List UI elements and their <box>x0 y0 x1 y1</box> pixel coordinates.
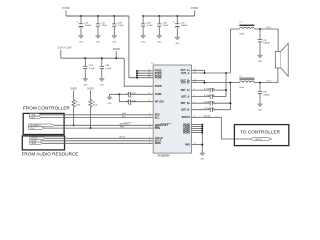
node 3.3V or 1.8V supply <box>58 47 72 59</box>
svg-text:ADR/FAULT: ADR/FAULT <box>120 123 131 126</box>
wire OUT_B+ stub <box>192 81 205 83</box>
ground for AVDD/VR_DIG caps <box>107 94 112 105</box>
svg-text:PVDD: PVDD <box>191 6 198 10</box>
capacitor C29 0.1uF <box>141 16 153 35</box>
junction rail1 at C28 <box>113 15 115 17</box>
svg-text:4: 4 <box>194 88 195 90</box>
flag SCLK <box>30 140 43 143</box>
svg-text:10.0k: 10.0k <box>76 104 81 106</box>
svg-text:PDN: PDN <box>30 128 35 130</box>
junction rail1 at C24 <box>80 15 82 17</box>
svg-text:PAD: PAD <box>185 143 190 146</box>
FROM AUDIO RESOURCE box <box>22 136 79 157</box>
svg-text:BST_B+: BST_B+ <box>181 102 191 105</box>
svg-text:OUT+: OUT+ <box>266 27 272 29</box>
capacitor C31 100uF polarized <box>173 16 188 37</box>
wire OUT_A+ stub <box>192 70 205 73</box>
wire OUT_B <box>192 82 240 84</box>
junction R2 on PDN <box>90 127 92 129</box>
svg-text:20: 20 <box>194 71 196 73</box>
svg-text:9: 9 <box>194 101 195 103</box>
svg-text:11: 11 <box>148 93 150 95</box>
ground for C29 <box>141 36 146 44</box>
svg-text:100µF: 100µF <box>181 25 188 27</box>
capacitor C33 4.7uF <box>83 58 95 78</box>
svg-text:3: 3 <box>194 116 195 118</box>
ground for C33 <box>83 79 88 87</box>
svg-text:VR_DIG: VR_DIG <box>155 101 164 104</box>
wire L2 to junction <box>254 82 278 84</box>
svg-text:BST_B-: BST_B- <box>181 109 190 112</box>
wire SCLK <box>43 140 154 142</box>
wire LRCLK <box>46 137 153 139</box>
capacitor C28 0.1uF <box>112 16 124 35</box>
capacitor C38 0.22uF (BST_A-) <box>192 94 227 98</box>
wire R1 to ADR/FAULT line <box>73 107 75 125</box>
capacitor C24 100uF polarized <box>76 16 91 35</box>
junction rail2 at C29 <box>142 15 144 17</box>
flag LRCLK <box>30 137 46 140</box>
wire OUT_A up to L1 <box>229 29 231 73</box>
capacitor C42 0.22uF (BST_B-) <box>192 108 231 112</box>
svg-text:6: 6 <box>149 116 150 118</box>
wire OUT_A <box>192 72 231 74</box>
svg-text:SDOUT: SDOUT <box>182 116 191 119</box>
flag SDIN <box>30 142 43 145</box>
junction rail2 at C31 <box>176 15 178 17</box>
junction 3.3V rail at DVDD symbol <box>115 57 117 59</box>
wire OUT_A to L1 <box>230 28 239 30</box>
svg-text:DVDD: DVDD <box>87 89 94 91</box>
ground for C27 <box>95 36 100 44</box>
ground for C35 <box>257 104 262 112</box>
wire L1 to junction <box>254 28 278 30</box>
speaker SPK1 <box>275 43 288 76</box>
op-amp U1 TAS5805M body <box>151 63 192 158</box>
flag SDA <box>30 114 41 117</box>
svg-text:DVDD: DVDD <box>70 89 77 91</box>
node DVDD supply symbol <box>113 48 120 58</box>
inductor L2 10uH <box>239 76 254 89</box>
svg-text:GND: GND <box>175 43 180 45</box>
svg-text:GND: GND <box>83 84 88 86</box>
svg-text:100µF: 100µF <box>85 25 92 27</box>
svg-text:GND: GND <box>157 41 162 43</box>
svg-text:GND: GND <box>141 41 146 43</box>
svg-text:SCL: SCL <box>122 116 126 118</box>
junction PAD <box>201 144 203 146</box>
svg-text:OUT_A-: OUT_A- <box>181 72 190 75</box>
svg-text:0.22µF C40: 0.22µF C40 <box>204 102 215 104</box>
svg-text:0.68µF: 0.68µF <box>263 43 270 45</box>
capacitor C35 0.68uF <box>258 83 271 104</box>
svg-text:TAS5805M: TAS5805M <box>157 155 169 158</box>
wire SDOUT to controller <box>192 117 250 139</box>
svg-text:3.3V or 1.8V: 3.3V or 1.8V <box>58 47 72 50</box>
wire OUT- up to speaker <box>277 68 279 83</box>
junction OUT_A stub join <box>204 72 206 74</box>
flag PDN <box>28 127 44 130</box>
svg-text:0.1µF: 0.1µF <box>118 25 124 27</box>
capacitor C30 22uF <box>157 16 169 35</box>
svg-text:28: 28 <box>148 76 150 78</box>
TO CONTROLLER box <box>234 125 288 146</box>
svg-text:R1: R1 <box>76 102 78 104</box>
svg-text:5: 5 <box>149 113 150 115</box>
svg-text:22µF: 22µF <box>102 25 108 27</box>
ground for C31 <box>175 37 180 45</box>
svg-text:10: 10 <box>148 100 150 102</box>
node DVDD pull-up supply R1 <box>70 89 77 100</box>
wire PDN <box>45 127 154 129</box>
svg-text:PVDD: PVDD <box>62 6 69 10</box>
svg-text:DVDD: DVDD <box>113 48 120 51</box>
capacitor C46 1uF (VR_DIG) <box>127 100 154 107</box>
svg-text:GND: GND <box>258 61 263 63</box>
wire AVDD cap gnd side <box>110 93 128 95</box>
svg-text:PDN: PDN <box>120 126 125 128</box>
wire branch to VR_DIG cap <box>119 94 128 101</box>
svg-text:4.7µF: 4.7µF <box>89 68 95 70</box>
resistor R1 10.0k <box>72 100 80 108</box>
junction AGND <box>201 128 203 130</box>
junction PGND 1 <box>201 124 203 126</box>
capacitor C32 0.68uF <box>258 29 271 55</box>
svg-text:FROM AUDIO RESOURCE: FROM AUDIO RESOURCE <box>22 152 79 157</box>
ground for C24 <box>78 36 83 44</box>
junction rail1 at C27 <box>97 15 99 17</box>
node DVDD pull-up supply R2 <box>87 89 94 100</box>
svg-text:8: 8 <box>149 142 150 144</box>
junction OUT_B stub join <box>204 82 206 84</box>
svg-text:7: 7 <box>149 85 150 87</box>
svg-text:7: 7 <box>194 108 195 110</box>
junction PVDD pin 1 <box>136 70 138 72</box>
junction PVDD pin 4 <box>136 77 138 79</box>
svg-text:SDOUT: SDOUT <box>255 139 262 141</box>
inductor L1 10uH <box>239 22 254 35</box>
svg-text:BST_A-: BST_A- <box>181 95 190 98</box>
svg-text:GND: GND <box>79 41 84 43</box>
svg-text:SCL: SCL <box>31 117 35 119</box>
svg-text:SDIN: SDIN <box>31 143 36 145</box>
svg-text:GND: GND <box>100 84 105 86</box>
svg-text:10µH: 10µH <box>239 33 244 35</box>
svg-text:21: 21 <box>194 69 196 71</box>
ground for C30 <box>157 36 162 44</box>
wire OUT+ down to speaker <box>277 29 279 51</box>
svg-text:22µF: 22µF <box>163 25 169 27</box>
svg-text:OUT-: OUT- <box>267 81 272 83</box>
junction OUT_A BST branch <box>225 72 227 74</box>
svg-text:29: 29 <box>194 143 196 145</box>
junction OUT+ <box>259 28 261 30</box>
svg-text:0.1µF: 0.1µF <box>106 68 112 70</box>
junction DGND 2 <box>201 132 203 134</box>
svg-text:GND: GND <box>112 41 117 43</box>
wire rail1 PVDD horizontal <box>66 15 129 17</box>
svg-text:FROM CONTROLLER: FROM CONTROLLER <box>23 105 70 110</box>
wire BST_A vertical <box>225 73 227 97</box>
junction BST_B+ <box>229 102 231 104</box>
svg-text:GND: GND <box>96 41 101 43</box>
resistor R2 10.0k <box>89 100 97 108</box>
capacitor C40 0.22uF (BST_B+) <box>192 101 231 105</box>
svg-text:8: 8 <box>194 95 195 97</box>
svg-text:1: 1 <box>149 124 150 126</box>
svg-text:SCL: SCL <box>155 116 160 119</box>
flag ADR/FAULT <box>28 124 55 127</box>
junction PVDD pin 2 <box>136 72 138 74</box>
FROM CONTROLLER box <box>23 105 70 134</box>
wire DVDD to IC pin <box>124 58 153 86</box>
svg-text:GND: GND <box>200 159 205 161</box>
wire SCL <box>41 117 153 119</box>
capacitor C45 1uF (AVDD) <box>127 92 154 99</box>
svg-text:AVDD: AVDD <box>155 93 162 96</box>
svg-text:0.22µF C38: 0.22µF C38 <box>204 95 215 97</box>
svg-text:GND: GND <box>258 110 263 112</box>
svg-text:PDN: PDN <box>155 127 160 130</box>
svg-text:SDIN: SDIN <box>155 142 161 145</box>
node PVDD (rail 1 supply symbol) <box>62 6 69 16</box>
svg-text:PVDD: PVDD <box>155 77 162 80</box>
wire rail 3.3V horizontal <box>61 57 124 59</box>
svg-text:R2: R2 <box>93 102 95 104</box>
wire SDIN <box>43 142 154 144</box>
junction DGND 1 <box>201 130 203 132</box>
junction OUT- <box>259 82 261 84</box>
wire PVDD pin join column <box>137 71 153 78</box>
junction OUT_B BST branch <box>229 82 231 84</box>
svg-text:TO CONTROLLER: TO CONTROLLER <box>240 129 281 134</box>
junction AVDD branch <box>118 93 120 95</box>
ground for GND pins <box>200 153 205 161</box>
junction BST_A+ <box>225 89 227 91</box>
svg-text:OUT_B-: OUT_B- <box>181 81 190 84</box>
svg-text:0.1µF C45: 0.1µF C45 <box>127 93 136 95</box>
wire BST_B vertical <box>229 83 231 110</box>
junction PVDD pin 3 <box>136 75 138 77</box>
junction rail2 at C30 <box>158 15 160 17</box>
junction 3.3V rail at C33 <box>84 57 86 59</box>
svg-text:LRCLK: LRCLK <box>119 137 126 139</box>
svg-text:DVDD: DVDD <box>155 85 162 88</box>
wire GND pins stubs <box>192 125 203 153</box>
svg-text:0.1µF: 0.1µF <box>147 25 153 27</box>
ground for C28 <box>112 36 117 44</box>
wire R2 to PDN line <box>90 107 92 128</box>
wire ADR/FAULT <box>55 124 153 126</box>
svg-text:10µH: 10µH <box>239 87 244 89</box>
ground for C32 <box>257 55 262 63</box>
capacitor C36 0.22uF (BST_A+) <box>192 88 227 92</box>
flag SDOUT <box>250 138 272 141</box>
junction R1 on ADR/FAULT <box>73 124 75 126</box>
svg-text:16: 16 <box>194 81 196 83</box>
svg-text:BST_A+: BST_A+ <box>181 89 191 92</box>
capacitor C27 22uF <box>96 16 108 35</box>
capacitor C34 0.1uF <box>100 58 112 78</box>
junction PGND 2 <box>201 126 203 128</box>
wire rail1 drop to PVDD pins <box>129 16 137 78</box>
svg-text:GND: GND <box>107 103 112 105</box>
svg-text:0.68µF: 0.68µF <box>263 94 270 96</box>
svg-text:0.22µF C42: 0.22µF C42 <box>204 108 215 110</box>
wire rail2 PVDD horizontal <box>143 15 195 17</box>
junction 3.3V rail at C34 <box>101 57 103 59</box>
ground for C34 <box>99 79 104 87</box>
svg-text:2: 2 <box>149 127 150 129</box>
svg-text:0.22µF C36: 0.22µF C36 <box>204 88 215 90</box>
svg-text:0.1µF C46: 0.1µF C46 <box>127 100 136 102</box>
svg-text:10.0k: 10.0k <box>93 104 98 106</box>
flag SCL <box>30 116 41 119</box>
wire SDA <box>41 114 153 116</box>
svg-text:DGND: DGND <box>183 131 190 134</box>
node PVDD (rail 2 supply symbol) <box>191 6 198 16</box>
svg-text:SDOUT: SDOUT <box>204 116 212 118</box>
